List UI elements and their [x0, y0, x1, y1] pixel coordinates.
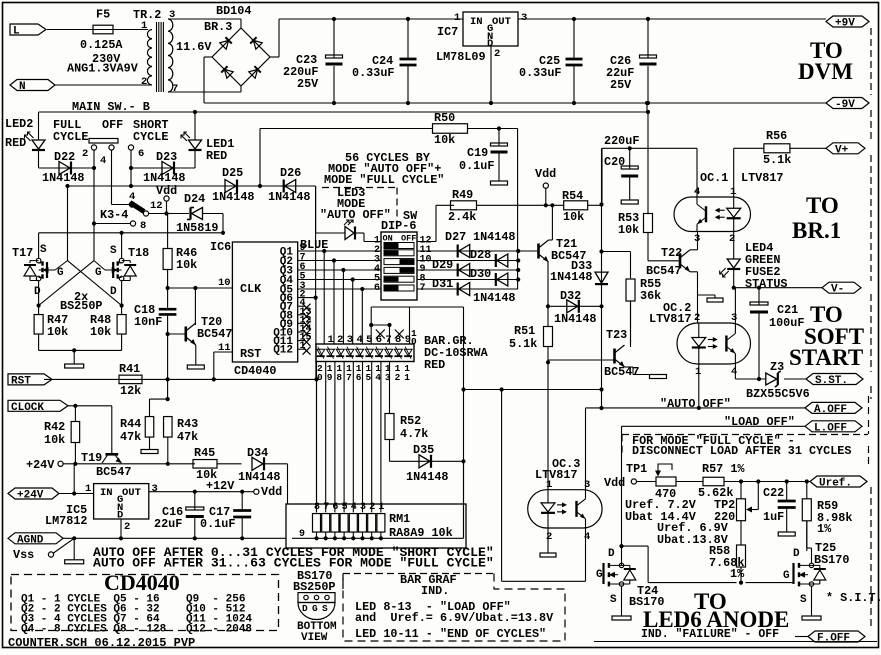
svg-text:ANG1.3VA9V: ANG1.3VA9V: [67, 62, 139, 76]
svg-text:Q4 - 8 CYCLES Q8 - 128 Q12 -: Q4 - 8 CYCLES Q8 - 128 Q12 - 2048: [21, 624, 252, 636]
svg-text:CD4040: CD4040: [104, 570, 180, 595]
svg-text:CLK: CLK: [240, 282, 262, 296]
svg-text:11.6V: 11.6V: [176, 40, 212, 54]
body diode T17: [29, 261, 31, 263]
diode D31 1N4148: [459, 283, 470, 296]
svg-text:V-: V-: [831, 284, 844, 296]
svg-text:CYCLE: CYCLE: [53, 130, 88, 144]
svg-text:1N4148: 1N4148: [550, 270, 592, 284]
svg-text:0.125A: 0.125A: [80, 38, 123, 52]
flag RST: [8, 374, 44, 385]
svg-text:D24: D24: [184, 192, 205, 206]
bus junction dots: [516, 249, 520, 253]
svg-text:100uF: 100uF: [769, 316, 804, 330]
wire T22 emitter: [690, 271, 698, 273]
svg-text:START: START: [789, 345, 863, 370]
dashed brackets right: [868, 396, 870, 416]
svg-text:0.33uF: 0.33uF: [519, 66, 561, 80]
RST pin wire: [214, 351, 233, 353]
flag V-: [822, 282, 861, 293]
svg-text:Vdd: Vdd: [535, 167, 556, 181]
svg-text:RST: RST: [240, 347, 261, 361]
diode D23 1N4148: [131, 167, 195, 169]
svg-text:D22: D22: [54, 150, 75, 164]
svg-text:10k: 10k: [563, 210, 584, 224]
svg-text:D28: D28: [470, 248, 491, 262]
regulator IC5 LM7812: [94, 484, 149, 519]
svg-text:R51: R51: [514, 324, 535, 338]
svg-text:R45: R45: [194, 446, 215, 460]
svg-text:4: 4: [584, 531, 590, 543]
svg-text:4.7k: 4.7k: [400, 427, 428, 441]
wire OC.3 pin1: [547, 362, 549, 489]
wire: [121, 233, 123, 258]
svg-text:RED: RED: [5, 136, 26, 150]
switch post 6: [128, 145, 133, 150]
svg-text:STATUS: STATUS: [745, 277, 787, 291]
diode D27 1N4148: [459, 245, 470, 258]
wire T21 collector: [551, 205, 553, 240]
svg-text:T19: T19: [81, 451, 102, 465]
capacitor C18 10nF: [167, 288, 169, 308]
svg-text:6: 6: [356, 372, 362, 383]
svg-text:G: G: [783, 570, 790, 582]
flag CLOCK: [8, 400, 68, 411]
wire OC.3 pin4 loop: [585, 528, 587, 581]
V- line: [733, 269, 735, 288]
LED3 BLUE: [315, 186, 317, 233]
svg-text:F.OFF: F.OFF: [817, 633, 850, 645]
svg-text:10nF: 10nF: [134, 315, 162, 329]
wire R53 column top: [647, 112, 649, 214]
wire IC7 gnd: [490, 46, 492, 103]
svg-text:10k: 10k: [44, 433, 65, 447]
svg-text:2: 2: [694, 312, 700, 324]
diode D33 1N4148: [595, 272, 608, 283]
transistor T20 BC547: [168, 333, 185, 335]
A.OFF feed vertical: [463, 307, 465, 538]
dashed box LED3: [322, 187, 397, 189]
wire T19 base: [111, 406, 113, 454]
svg-text:25V: 25V: [610, 78, 632, 92]
svg-text:+9V: +9V: [835, 18, 855, 30]
right section bottom line: [594, 641, 877, 643]
svg-text:RA8A9 10k: RA8A9 10k: [389, 526, 453, 540]
capacitor C25: [572, 17, 576, 21]
diode D28 1N4148: [497, 254, 508, 267]
wire OC.1 pin1 / V+ line: [733, 148, 735, 197]
wire RM1 rail up: [463, 461, 465, 538]
post 8: [130, 221, 135, 226]
svg-text:RST: RST: [11, 375, 31, 387]
svg-text:BC547: BC547: [604, 365, 639, 379]
svg-text:R41: R41: [119, 362, 140, 376]
svg-text:3: 3: [152, 483, 158, 495]
wire T23 collector: [630, 301, 632, 345]
svg-text:DVM: DVM: [798, 59, 853, 84]
capacitor C16 22uF: [193, 490, 197, 494]
svg-text:* S.I.T.: * S.I.T.: [826, 591, 881, 605]
svg-text:0: 0: [317, 372, 323, 383]
capacitor C17 0.1uF: [240, 490, 244, 494]
svg-text:V+: V+: [835, 144, 849, 156]
svg-text:F5: F5: [96, 8, 110, 22]
svg-text:1: 1: [85, 483, 91, 495]
svg-text:1: 1: [404, 372, 410, 383]
resistor R53 10k: [644, 214, 653, 233]
svg-text:R57 1%: R57 1%: [702, 462, 745, 476]
capacitor C24: [406, 17, 410, 21]
svg-text:2: 2: [546, 531, 552, 543]
svg-text:1N4148: 1N4148: [554, 312, 596, 326]
wire T23 emitter to ground: [625, 366, 634, 368]
wire post4 to K3-4: [111, 150, 113, 205]
svg-text:5.1k: 5.1k: [763, 153, 791, 167]
resistor R44 47k: [150, 398, 168, 400]
svg-text:9: 9: [327, 372, 333, 383]
wire: [240, 19, 242, 28]
T25 mosfet body: [792, 563, 794, 584]
svg-text:10: 10: [218, 277, 231, 289]
svg-text:47k: 47k: [177, 430, 198, 444]
wire OC.1 pin4: [696, 148, 698, 197]
resistor R57 5.62k 1%: [703, 477, 724, 486]
svg-text:G: G: [596, 569, 603, 581]
capacitor C26: [646, 17, 650, 21]
wire L.OFF to T24 drain: [621, 426, 623, 546]
wire: [204, 56, 212, 58]
wire: [518, 18, 826, 20]
svg-text:Q12: Q12: [273, 345, 293, 357]
svg-text:12k: 12k: [120, 384, 141, 398]
svg-text:S.ST.: S.ST.: [815, 375, 848, 387]
svg-text:3: 3: [731, 312, 737, 324]
svg-text:IND.: IND.: [421, 584, 449, 598]
svg-text:R43: R43: [177, 417, 198, 431]
resistor R45 10k: [193, 460, 217, 469]
pull-up bus: [517, 129, 519, 290]
AGND rail: [62, 537, 286, 539]
wire OC.2 pin4 to S.ST: [734, 364, 736, 379]
svg-text:9: 9: [299, 529, 305, 540]
svg-text:N: N: [19, 81, 26, 93]
fuse F5: [93, 25, 113, 34]
svg-text:1%: 1%: [817, 522, 832, 536]
flag +24V: [8, 488, 59, 499]
svg-text:and Uref.= 6.9V/Ubat.=13.8V: and Uref.= 6.9V/Ubat.=13.8V: [355, 611, 554, 625]
svg-text:0.1uF: 0.1uF: [459, 159, 494, 173]
svg-text:D25: D25: [222, 166, 243, 180]
svg-text:3: 3: [521, 12, 527, 24]
center vertical node: [601, 148, 603, 408]
wire OC.2 pin1: [698, 364, 700, 408]
svg-text:AGND: AGND: [17, 534, 44, 546]
svg-text:1N4148: 1N4148: [473, 291, 515, 305]
svg-text:1N4148: 1N4148: [473, 230, 515, 244]
ground: [73, 350, 75, 364]
svg-text:8: 8: [336, 372, 342, 383]
wire T24 drain to R58 rail: [622, 545, 649, 547]
svg-text:Vdd: Vdd: [261, 485, 282, 499]
svg-text:R44: R44: [120, 417, 141, 431]
dashed bracket: [870, 294, 872, 372]
LED4 GREEN FUSE2 STATUS: [733, 232, 735, 260]
svg-text:LED 10-11 - "END OF CYCLES": LED 10-11 - "END OF CYCLES": [355, 627, 546, 641]
svg-text:BC547: BC547: [197, 327, 232, 341]
wire: [38, 233, 40, 258]
svg-text:VIEW: VIEW: [301, 632, 328, 644]
svg-text:4: 4: [375, 372, 381, 383]
svg-text:IN: IN: [470, 16, 483, 28]
diode D30 1N4148: [497, 273, 508, 286]
flag AGND: [8, 533, 63, 544]
resistor R54 10k: [564, 201, 588, 210]
svg-text:L: L: [13, 26, 20, 38]
resistor R51 5.1k: [544, 327, 553, 347]
wire OC.3 pin2 ground: [547, 528, 549, 553]
svg-text:LED2: LED2: [5, 117, 33, 131]
svg-text:R52: R52: [400, 414, 421, 428]
diode D34 1N4148: [252, 457, 263, 470]
svg-text:1N4148: 1N4148: [406, 470, 448, 484]
svg-text:RED: RED: [206, 149, 227, 163]
svg-text:D: D: [793, 548, 800, 560]
capacitor C21 100uF: [758, 288, 760, 305]
svg-text:7: 7: [346, 372, 352, 383]
svg-text:5: 5: [366, 372, 372, 383]
dashed box FOR MODE: [622, 434, 868, 436]
diode D25 1N4148: [225, 180, 236, 193]
wire R59 to T25 drain: [806, 521, 808, 548]
svg-text:1: 1: [454, 12, 460, 24]
resistor R46 10k: [167, 214, 169, 248]
diode D35 1N4148: [390, 460, 464, 462]
wire T25 source ground: [811, 586, 813, 616]
svg-text:RM1: RM1: [389, 512, 410, 526]
svg-text:D: D: [117, 510, 123, 522]
svg-text:MODE "FULL CYCLE": MODE "FULL CYCLE": [324, 173, 444, 187]
svg-text:C22: C22: [763, 486, 784, 500]
svg-text:6: 6: [332, 502, 338, 513]
svg-text:D29: D29: [432, 258, 453, 272]
body diode T25: [819, 565, 821, 569]
dashed box BAR GRAF: [343, 573, 494, 575]
svg-text:1: 1: [141, 20, 147, 32]
svg-text:S: S: [110, 245, 117, 257]
no-connect marks: [376, 330, 385, 339]
svg-text:0.1uF: 0.1uF: [200, 517, 235, 531]
resistor R47 10k: [38, 306, 40, 315]
resistor R49 2.4k: [436, 204, 454, 206]
flag Uref.: [810, 476, 867, 487]
svg-text:1N4148: 1N4148: [238, 470, 280, 484]
svg-text:3: 3: [694, 233, 700, 245]
wire: [55, 84, 152, 86]
wire RST right end: [316, 379, 318, 512]
svg-text:R49: R49: [452, 188, 473, 202]
resistor R50 10k: [259, 129, 261, 187]
svg-text:IN: IN: [100, 487, 113, 499]
svg-text:BR.1: BR.1: [792, 218, 841, 243]
cross coupling wires: [68, 261, 122, 306]
wire T21 emitter: [547, 262, 549, 306]
body diode T24: [629, 565, 631, 569]
svg-text:R56: R56: [766, 129, 787, 143]
wire K3 to D24: [148, 213, 189, 215]
wire: [676, 481, 703, 483]
svg-text:S: S: [610, 594, 617, 606]
svg-text:10k: 10k: [618, 223, 639, 237]
svg-text:47k: 47k: [120, 430, 141, 444]
svg-text:10k: 10k: [434, 133, 455, 147]
svg-text:7: 7: [323, 502, 329, 513]
transistor T21 BC547: [537, 244, 540, 259]
svg-text:R50: R50: [434, 111, 455, 125]
svg-text:Vdd: Vdd: [604, 476, 625, 490]
wire -9V to switch rail: [645, 101, 649, 105]
resistor R48 10k: [121, 306, 123, 315]
diode D22 1N4148: [39, 167, 95, 169]
svg-text:BS250P: BS250P: [293, 580, 335, 594]
svg-text:1N4148: 1N4148: [143, 171, 185, 185]
svg-text:D35: D35: [413, 443, 434, 457]
svg-text:T18: T18: [128, 246, 149, 260]
svg-text:2: 2: [369, 502, 375, 513]
svg-text:4: 4: [351, 502, 357, 513]
svg-text:-9V: -9V: [835, 99, 855, 111]
svg-text:6: 6: [138, 148, 144, 160]
wire post6: [130, 150, 132, 186]
dashed DVM border: [870, 28, 872, 95]
svg-text:OUT: OUT: [122, 487, 141, 499]
main switch rail: [39, 111, 649, 113]
svg-text:2.4k: 2.4k: [448, 210, 476, 224]
svg-text:D27: D27: [445, 230, 466, 244]
svg-text:OC.1: OC.1: [700, 171, 728, 185]
svg-text:22uF: 22uF: [154, 517, 182, 531]
transistor T23 BC547: [548, 359, 615, 361]
svg-text:BZX55C5V6: BZX55C5V6: [746, 387, 810, 401]
wire col10: [409, 307, 411, 344]
resistor R56 5.1k: [764, 144, 790, 153]
resistor R42 10k: [74, 406, 76, 421]
wire: [113, 29, 148, 31]
wire: [270, 56, 279, 58]
svg-text:OFF: OFF: [102, 118, 123, 132]
wire: [546, 204, 564, 206]
resistor R52 4.7k: [389, 362, 391, 414]
wire pin3: [168, 18, 241, 20]
svg-text:2: 2: [494, 48, 500, 60]
svg-text:"AUTO OFF": "AUTO OFF": [660, 397, 731, 411]
diode D32 1N4148: [548, 305, 602, 307]
svg-text:2: 2: [395, 372, 401, 383]
svg-text:1uF: 1uF: [763, 510, 784, 524]
svg-text:"LOAD OFF": "LOAD OFF": [724, 415, 795, 429]
svg-text:G: G: [57, 267, 64, 279]
svg-text:Z3: Z3: [770, 360, 784, 374]
svg-text:DISCONNECT LOAD AFTER 31 CYCLE: DISCONNECT LOAD AFTER 31 CYCLES: [632, 444, 851, 458]
wire CLOCK: [68, 405, 112, 407]
wire Q-row taps to bar graph: [322, 249, 326, 253]
wire T24 source ground: [621, 586, 623, 616]
wire: [222, 214, 224, 233]
resistor R41 12k: [119, 375, 142, 384]
svg-text:G: G: [95, 267, 102, 279]
svg-text:RED: RED: [424, 358, 445, 372]
svg-text:BS250P: BS250P: [60, 299, 102, 313]
wire gate feeds: [67, 186, 69, 261]
dashed border right lower: [870, 487, 872, 630]
wire +24V: [59, 493, 94, 495]
wire R55 branch: [602, 251, 631, 253]
svg-text:IC6: IC6: [210, 240, 231, 254]
T22 emitter ground stub: [698, 294, 716, 296]
zener Z3 BZX55C5V6: [766, 373, 777, 385]
svg-text:TO: TO: [806, 193, 839, 218]
svg-text:1: 1: [695, 366, 701, 378]
svg-text:D: D: [302, 603, 308, 614]
flag S.ST.: [806, 374, 863, 385]
diode D26 1N4148: [285, 180, 296, 193]
svg-text:D34: D34: [247, 446, 268, 460]
svg-text:C19: C19: [467, 146, 488, 160]
svg-text:D: D: [34, 286, 41, 298]
wire D34 to RM1: [287, 464, 289, 504]
Q6 wire: [298, 297, 316, 299]
svg-text:10k: 10k: [47, 325, 68, 339]
svg-text:+24V: +24V: [26, 458, 55, 472]
flag V+: [826, 143, 865, 154]
wire DIP rows right: [417, 250, 518, 252]
bottom -9V rail: [204, 102, 826, 104]
svg-text:5.1k: 5.1k: [509, 337, 537, 351]
resistor R58 7.68k 1%: [737, 545, 746, 567]
capacitor C19 0.1uF: [498, 129, 500, 147]
svg-text:TP1: TP1: [626, 462, 647, 476]
svg-text:2: 2: [729, 233, 735, 245]
svg-text:Uref.: Uref.: [819, 478, 852, 490]
wire jumper row: [371, 324, 389, 326]
svg-text:36k: 36k: [640, 289, 661, 303]
wire OC.2 pin3: [734, 288, 736, 323]
svg-text:IC7: IC7: [437, 25, 458, 39]
wire T22 collector: [697, 232, 699, 250]
svg-text:1%: 1%: [730, 567, 745, 581]
svg-text:1N4148: 1N4148: [212, 190, 254, 204]
resistor R55 36k: [630, 252, 632, 279]
svg-text:C21: C21: [777, 303, 798, 317]
wire: [240, 86, 242, 92]
svg-text:8: 8: [140, 220, 146, 232]
svg-text:T22: T22: [661, 246, 682, 260]
wire R51 top: [547, 306, 549, 326]
svg-text:IND. "FAILURE" - OFF: IND. "FAILURE" - OFF: [641, 628, 779, 641]
svg-text:G: G: [312, 603, 318, 614]
svg-text:D30: D30: [470, 267, 491, 281]
svg-text:25V: 25V: [297, 77, 319, 91]
dashed box CD4040 table: [11, 575, 279, 631]
flag -9V: [826, 98, 869, 109]
svg-text:D: D: [110, 286, 117, 298]
wire 220uF left end: [601, 148, 603, 204]
flag L.OFF: [805, 421, 862, 432]
svg-text:CD4040: CD4040: [234, 364, 276, 378]
wires bar graph to RM1: [316, 362, 318, 513]
svg-text:BC547: BC547: [96, 465, 131, 479]
flag L: [10, 24, 46, 35]
svg-text:T23: T23: [606, 328, 627, 342]
